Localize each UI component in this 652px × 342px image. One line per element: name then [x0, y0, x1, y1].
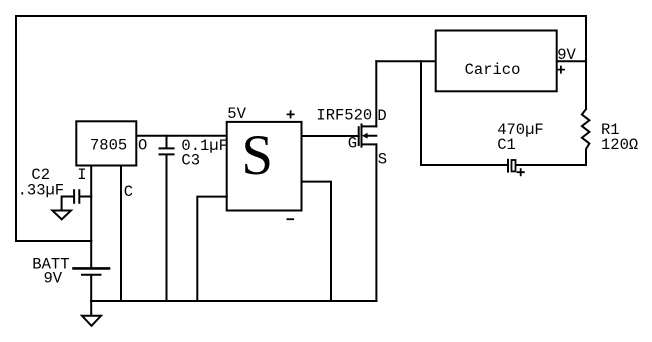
wire drain node to Carico left pin	[376, 60, 435, 62]
wire 9V node to Carico right pin	[557, 60, 586, 62]
svg-text:C1: C1	[497, 136, 516, 154]
battery BATT wires	[90, 241, 92, 301]
svg-text:D: D	[377, 107, 386, 125]
svg-text:I: I	[77, 166, 86, 184]
svg-text:120Ω: 120Ω	[601, 136, 638, 154]
capacitor C1	[507, 160, 509, 172]
svg-text:S: S	[241, 124, 273, 187]
wire source down to ground bus	[375, 144, 377, 301]
battery bottom plate	[82, 274, 101, 276]
transistor Q1 IRF520	[359, 125, 377, 147]
svg-text:9V: 9V	[44, 269, 63, 287]
wire S box right lower pin to ground bus	[302, 182, 332, 301]
svg-text:5V: 5V	[227, 105, 246, 123]
wire 7805 common pin down to ground bus	[120, 166, 122, 302]
plus polarity mark C1	[518, 169, 524, 175]
svg-text:S: S	[378, 151, 387, 169]
svg-text:C3: C3	[181, 151, 200, 169]
capacitor C2	[62, 190, 92, 210]
svg-text:9V: 9V	[557, 46, 576, 64]
regulator U1 7805 box	[76, 121, 136, 165]
wire outer frame: battery+ up over top to right side	[16, 16, 586, 241]
wire S box left lower pin to ground bus	[197, 197, 226, 301]
capacitor C3	[160, 136, 174, 301]
svg-text:IRF520: IRF520	[316, 107, 372, 125]
ground symbol at C2	[52, 211, 71, 220]
battery top plate	[74, 267, 110, 270]
svg-text:.33µF: .33µF	[18, 182, 65, 200]
svg-text:G: G	[348, 134, 357, 152]
ground symbol main	[90, 301, 92, 316]
plus polarity at 9V node	[558, 67, 564, 73]
svg-text:C: C	[124, 183, 133, 201]
wire C1 left lead up to drain node	[421, 61, 507, 165]
svg-text:Carico: Carico	[465, 61, 521, 79]
wire 7805 input pin down to battery	[90, 166, 92, 242]
wire gate from S box to Q1	[302, 135, 359, 137]
wire ground bus	[91, 300, 376, 302]
svg-text:O: O	[138, 136, 147, 154]
wire C1 right lead from R1 bottom	[517, 164, 586, 166]
wire 7805 output to S box (5V rail)	[136, 135, 226, 137]
plus label of S box	[288, 111, 294, 117]
S box U2	[227, 122, 302, 211]
load box Carico	[436, 31, 557, 92]
wire drain vertical	[375, 61, 377, 126]
minus label of S box	[287, 218, 293, 220]
resistor R1	[582, 109, 590, 165]
svg-text:7805: 7805	[90, 136, 127, 154]
